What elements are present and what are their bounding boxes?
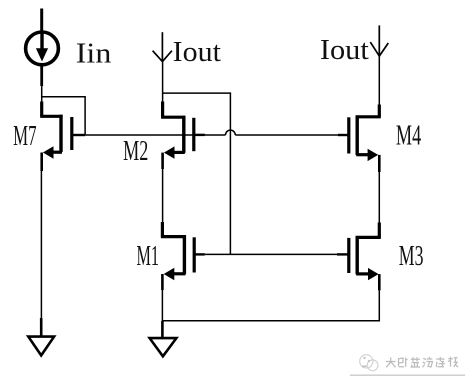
svg-text:Iin: Iin bbox=[76, 38, 112, 69]
wire: M1 source down to bottom rail bbox=[161, 290, 163, 321]
watermark text 大印蓝海科技 bbox=[386, 357, 458, 368]
current source Iin bbox=[26, 32, 59, 65]
wire: gate line M7-M2-M4 bbox=[85, 134, 225, 136]
transistor M4 bbox=[338, 105, 381, 173]
transistor M3 bbox=[337, 223, 381, 291]
transistor M7 bbox=[40, 102, 85, 172]
wire: right Iout lead down to M4 drain bbox=[378, 56, 380, 105]
wire: M7 source to ground bbox=[40, 171, 42, 319]
svg-text:M7: M7 bbox=[13, 121, 36, 152]
wire: M7 drain-gate feedback bbox=[42, 97, 85, 135]
svg-text:M1: M1 bbox=[137, 241, 160, 272]
wire: middle Iout lead down to M2 drain bbox=[162, 62, 164, 102]
wire: M2 source to M1 drain bbox=[162, 169, 164, 223]
wire: M4 source to M3 drain bbox=[378, 172, 380, 223]
wire: bottom rail bbox=[162, 320, 379, 322]
watermark logo bbox=[360, 355, 378, 371]
port arrow: Iout (middle) bbox=[153, 32, 172, 62]
ground (left) bbox=[28, 318, 54, 355]
watermark separator line bbox=[350, 374, 465, 376]
svg-text:M2: M2 bbox=[123, 136, 148, 167]
wire hop over vertical at x=230 bbox=[226, 130, 236, 135]
wire: gate line M1-M3 bbox=[205, 253, 337, 255]
port arrow: Iout (right) bbox=[370, 25, 388, 56]
transistor M2 bbox=[161, 102, 205, 170]
ground (middle) bbox=[150, 321, 177, 356]
wire: current source to M7 drain bbox=[40, 65, 43, 86]
svg-text:Iout: Iout bbox=[320, 35, 369, 66]
svg-text:M4: M4 bbox=[396, 121, 421, 152]
wire: M2 drain to M1 gate (vertical at x=230) bbox=[163, 93, 231, 254]
wire: gate line continues to M4 bbox=[235, 134, 338, 136]
wire: top lead into current source bbox=[40, 9, 43, 32]
svg-text:M3: M3 bbox=[399, 241, 424, 272]
wire: M3 source down to bottom rail bbox=[378, 290, 380, 321]
transistor M1 bbox=[161, 222, 205, 290]
svg-text:Iout: Iout bbox=[173, 37, 221, 68]
